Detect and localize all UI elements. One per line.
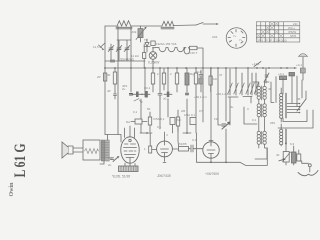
svg-text:40: 40 xyxy=(276,153,280,157)
wire T3 to bottom bus xyxy=(255,148,267,159)
capacitor C15 xyxy=(280,76,287,80)
transformer T2 xyxy=(257,86,260,89)
resistor R8 xyxy=(162,73,165,84)
svg-text:+17,1: +17,1 xyxy=(252,62,260,66)
wire gang bottom bars xyxy=(228,96,252,99)
resistor R16 xyxy=(190,118,196,125)
svg-text:250: 250 xyxy=(270,121,275,125)
svg-text:Sperkreis: Sperkreis xyxy=(120,58,134,62)
svg-text:47: 47 xyxy=(219,73,223,77)
lamp LA1 xyxy=(149,52,157,60)
svg-text:11,5: 11,5 xyxy=(93,45,99,49)
capacitor C8 xyxy=(158,92,162,99)
switch S1 xyxy=(196,23,217,26)
tube V3 xyxy=(203,142,219,158)
svg-text:51/85: 51/85 xyxy=(179,142,187,146)
svg-text:1W: 1W xyxy=(214,117,219,121)
svg-text:0,1: 0,1 xyxy=(252,118,257,122)
svg-text:0n1: 0n1 xyxy=(196,70,201,74)
capacitor C18 hatched xyxy=(292,152,297,163)
wire bus upper xyxy=(105,60,145,62)
resistor R21 xyxy=(103,73,106,81)
capacitor C5 xyxy=(114,92,117,99)
capacitor C17 xyxy=(300,68,305,73)
trimmer C13 xyxy=(113,157,118,162)
antenna dome xyxy=(299,54,308,57)
svg-text:6,3: 6,3 xyxy=(290,142,295,146)
resistor R12 xyxy=(135,119,142,124)
wire verticals mid xyxy=(131,68,226,162)
svg-text:C0,1: C0,1 xyxy=(144,86,151,90)
svg-text:2u: 2u xyxy=(108,163,112,167)
node dots on bus xyxy=(104,67,288,69)
capacitor C19 xyxy=(199,70,203,78)
svg-text:7+: 7+ xyxy=(233,34,237,38)
svg-text:0,1: 0,1 xyxy=(157,125,162,129)
antenna trimmer C-ant xyxy=(99,43,106,50)
misc value labels xyxy=(107,87,295,151)
capacitor C6 xyxy=(130,94,133,95)
table X marks xyxy=(256,22,283,38)
svg-text:FE/SA 155 TA6: FE/SA 155 TA6 xyxy=(156,42,177,46)
resistor R10 hatched xyxy=(185,73,189,85)
capacitor C8b electrolytic xyxy=(145,91,148,98)
tube V4 socket xyxy=(226,28,247,49)
svg-text:+0,1: +0,1 xyxy=(296,63,302,67)
coil L2 xyxy=(161,21,174,29)
trimmer row junction wire xyxy=(111,40,131,61)
svg-text:+0,1: +0,1 xyxy=(278,72,284,76)
power transformer T4 secondary xyxy=(280,129,283,132)
svg-text:50: 50 xyxy=(147,107,151,111)
capacitor C9 xyxy=(167,92,170,98)
resistor R9 xyxy=(175,73,178,84)
wire verticals band2 xyxy=(141,92,196,146)
capacitor C4 xyxy=(110,60,115,63)
trimmer C1 xyxy=(108,46,114,52)
ground xyxy=(308,164,311,167)
resistor R4 xyxy=(190,46,198,49)
svg-text:7+: 7+ xyxy=(239,38,243,42)
svg-text:0,1: 0,1 xyxy=(133,110,138,114)
resistor R5 xyxy=(143,53,146,59)
wire gang to T3 xyxy=(230,97,257,126)
wire left vertical xyxy=(104,26,106,135)
resistor R7 xyxy=(151,73,154,84)
wire vertical x118 xyxy=(108,26,119,140)
svg-text:10n: 10n xyxy=(213,77,218,81)
svg-text:2P 9 3P 1P 0/10K0/10: 2P 9 3P 1P 0/10K0/10 xyxy=(257,39,287,43)
coil L1 xyxy=(116,21,132,29)
svg-text:C/5A 0,1: C/5A 0,1 xyxy=(153,117,165,121)
table xyxy=(256,22,300,42)
svg-text:MF: MF xyxy=(177,118,181,122)
svg-text:4P: 4P xyxy=(107,89,111,93)
voltage selector S2 xyxy=(287,104,299,113)
svg-text:4u: 4u xyxy=(230,105,234,109)
resistor R13 xyxy=(148,117,151,125)
capacitor C12 xyxy=(191,145,203,152)
svg-text:J06/7438: J06/7438 xyxy=(156,174,171,178)
svg-text:1/5A 0,1: 1/5A 0,1 xyxy=(184,113,195,117)
wire top horizontal xyxy=(105,25,196,26)
wire right of bus xyxy=(257,67,296,69)
svg-text:40k: 40k xyxy=(132,30,137,34)
svg-text:*E26L 51/38: *E26L 51/38 xyxy=(112,175,130,179)
wire ground bus xyxy=(197,133,268,165)
resistor R11 xyxy=(194,73,197,84)
tube V1 xyxy=(121,137,139,163)
svg-text:+06/7606: +06/7606 xyxy=(205,172,219,176)
node B xyxy=(186,132,188,134)
svg-text:0,1: 0,1 xyxy=(192,138,197,142)
svg-text:0,5: 0,5 xyxy=(199,109,204,113)
tube V1 base xyxy=(119,166,139,172)
svg-text:Rg: Rg xyxy=(190,72,194,76)
svg-text:46: 46 xyxy=(297,97,301,101)
svg-text:4 66 T: 4 66 T xyxy=(189,51,198,55)
wire main bus xyxy=(105,67,257,69)
svg-text:30: 30 xyxy=(107,73,111,77)
transformer T1 xyxy=(101,140,105,161)
capacitor C16 xyxy=(289,73,295,76)
transformer T3 lower xyxy=(257,131,260,134)
speaker SPK xyxy=(68,146,73,154)
rheostat R18 xyxy=(283,152,289,163)
resistor R19 xyxy=(209,76,212,85)
svg-text:L 61 G: L 61 G xyxy=(11,143,28,177)
resistor R15 xyxy=(176,117,179,126)
trimmer C3 xyxy=(124,46,130,52)
trimmer C11 arrow xyxy=(222,123,229,129)
resistor R17 xyxy=(179,147,189,152)
capacitor C10 xyxy=(186,93,189,95)
wire selector to transformer xyxy=(283,110,307,122)
resistor R20 xyxy=(149,146,152,153)
trimmer C2 xyxy=(116,46,122,52)
wire junction y136 xyxy=(105,135,121,143)
wire v271 xyxy=(271,77,276,103)
svg-text:46: 46 xyxy=(268,87,272,91)
diode V-det xyxy=(144,39,150,52)
svg-text:Owin: Owin xyxy=(9,182,15,197)
fuse F1 xyxy=(264,68,269,83)
svg-text:+: + xyxy=(229,39,231,43)
svg-text:TI: TI xyxy=(144,38,147,42)
capacitor C20 xyxy=(151,41,155,46)
capacitor C7 electrolytic xyxy=(136,92,139,98)
field coil L4 xyxy=(83,140,100,160)
svg-text:0,25kW: 0,25kW xyxy=(148,61,160,65)
power transformer T4 xyxy=(280,93,283,96)
wire node B tie xyxy=(183,132,191,134)
svg-text:A63: A63 xyxy=(212,35,218,39)
wire mains loop xyxy=(278,110,313,128)
tuning gang C14 xyxy=(230,69,256,95)
resistor R14 xyxy=(170,118,175,125)
wire feeds to selector xyxy=(283,76,302,107)
svg-text:2M: 2M xyxy=(181,109,186,113)
wire vertical x131 xyxy=(130,26,132,68)
table labels xyxy=(257,22,298,43)
svg-text:2P: 2P xyxy=(97,75,101,79)
node A xyxy=(146,132,148,134)
svg-text:0/P6: 0/P6 xyxy=(290,34,297,38)
transformer T3 xyxy=(257,104,260,107)
resistor R3 hatched xyxy=(138,29,143,38)
resistor R6 xyxy=(113,72,116,84)
svg-text:2u: 2u xyxy=(122,87,126,91)
wire node A tie xyxy=(140,132,152,134)
tube V2 xyxy=(157,141,173,157)
arrow mark xyxy=(279,159,284,161)
svg-text:+50,1-0,5: +50,1-0,5 xyxy=(216,92,229,96)
